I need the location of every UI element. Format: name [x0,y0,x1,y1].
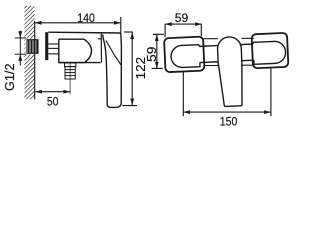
svg-text:150: 150 [220,114,238,128]
svg-text:59: 59 [175,11,189,25]
svg-text:50: 50 [47,94,59,108]
svg-text:G1/2: G1/2 [2,64,17,92]
svg-text:59: 59 [144,47,159,63]
svg-text:140: 140 [77,11,95,25]
